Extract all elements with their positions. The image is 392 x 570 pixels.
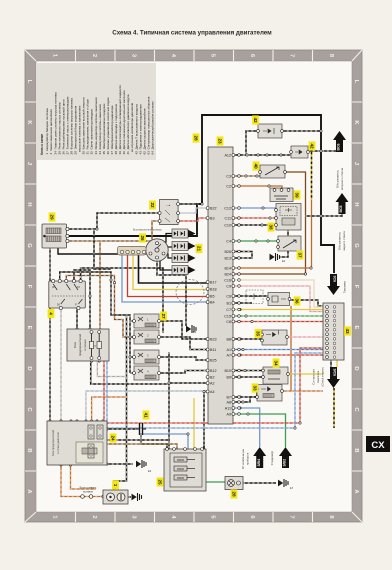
wire module top pin to trunk: [178, 203, 202, 205]
interior fuse box: [67, 329, 109, 361]
svg-text:Ключ к схеме: Ключ к схеме: [40, 134, 44, 155]
svg-text:40: 40: [253, 163, 258, 169]
svg-text:Высоковольтные провода: Высоковольтные провода: [133, 229, 162, 232]
svg-text:C10: C10: [224, 223, 231, 227]
svg-text:B7: B7: [226, 395, 231, 399]
svg-text:35: 35: [255, 331, 260, 337]
sensor 33: [256, 385, 284, 402]
svg-text:B11: B11: [210, 348, 216, 352]
svg-text:B: B: [353, 448, 359, 452]
sensor 35: [261, 330, 289, 345]
wire ignition coil to module: [67, 213, 159, 229]
wire relay42a left leg: [246, 131, 258, 154]
wire switch feed to mid: [81, 268, 163, 333]
spark plug 4: [172, 266, 196, 275]
label badge 4: [48, 309, 55, 318]
svg-text:C11: C11: [225, 216, 232, 220]
svg-text:27: 27: [161, 313, 166, 319]
speed sensor 34: [262, 367, 290, 384]
arrow rear screen heater BC5: [336, 193, 349, 214]
svg-text:7: 7: [288, 54, 294, 57]
wire injector 3 return: [159, 357, 208, 360]
wire bottom black row: [107, 439, 169, 441]
svg-text:C7: C7: [226, 308, 231, 312]
svg-text:25: 25: [157, 479, 162, 485]
svg-text:Е7: Е7: [290, 486, 294, 490]
wire ECU B8 to sensor35: [233, 339, 262, 341]
wire main battery feed trunk: [67, 115, 334, 273]
label badge 28: [193, 133, 200, 142]
label badge 33: [252, 383, 259, 392]
engine bay fuse box 24: [47, 421, 107, 465]
legend key box: [36, 63, 156, 160]
svg-text:заднего стекла: заднего стекла: [342, 231, 346, 251]
svg-text:B: B: [26, 448, 32, 452]
svg-text:B23: B23: [210, 337, 217, 341]
svg-text:CX: CX: [371, 440, 385, 451]
wire sensor38 earth leg: [280, 230, 288, 257]
svg-text:Блок предохранителей: Блок предохранителей: [52, 429, 55, 456]
label badge 34: [273, 358, 280, 367]
svg-text:B18: B18: [210, 287, 217, 291]
svg-text:A12: A12: [224, 153, 231, 157]
svg-text:28: 28: [231, 491, 236, 497]
svg-text:Сигнальная: Сигнальная: [312, 369, 316, 385]
label badge 22: [149, 200, 156, 209]
svg-text:26: 26: [140, 235, 145, 241]
wire fusebox24 orange loop 1: [61, 465, 103, 497]
svg-text:C8: C8: [226, 320, 231, 324]
wire injector tap 3: [130, 356, 134, 358]
wire switch white-grey wire: [60, 308, 62, 421]
wire ECU C6 to idle valve: [233, 295, 268, 297]
oxygen sensor 28: [225, 477, 243, 490]
wire ECU C10 black: [233, 224, 276, 226]
wire check lamp yellow feed: [336, 360, 338, 367]
svg-text:B8: B8: [226, 337, 231, 341]
ignition switch 4: [49, 279, 86, 309]
svg-text:ВС6: ВС6: [337, 143, 341, 150]
label badge 29: [49, 212, 56, 221]
svg-text:B22: B22: [210, 206, 217, 210]
injector 3: [133, 350, 161, 364]
spark plug 3: [172, 254, 196, 263]
diagnostic connector 43: [323, 303, 344, 360]
arrow speedometer 3B2: [279, 447, 292, 468]
wire nest vertical black: [94, 229, 111, 269]
svg-text:22: 22: [150, 202, 155, 208]
ground E1 fusible link: [132, 493, 142, 501]
label badge 28: [231, 489, 238, 498]
throttle switch dashed box: [246, 290, 263, 304]
svg-text:Спидометр: Спидометр: [270, 450, 274, 465]
wire injector tap 2: [130, 336, 134, 338]
svg-text:2: 2: [91, 515, 97, 518]
svg-text:J: J: [26, 162, 32, 165]
arrow instrument cluster 3B4: [253, 447, 266, 468]
wire ECU A12 to relay: [233, 154, 291, 156]
wire ECU C11 red: [233, 217, 276, 219]
svg-text:Блок плавких: Блок плавких: [80, 486, 97, 490]
air temp sensor 37: [277, 236, 301, 251]
wire fusebox salon lower out: [91, 361, 169, 384]
legend entries: [45, 85, 154, 155]
injector 2: [133, 330, 161, 344]
svg-text:C15: C15: [224, 314, 231, 318]
wire ECU B7 to sensor33: [233, 389, 257, 397]
wire injector 4 return: [159, 371, 208, 374]
label badge 36: [294, 296, 301, 305]
ground E2 shield drain: [186, 325, 196, 333]
distributor harness connector: [118, 247, 147, 256]
label badge 25: [157, 477, 164, 486]
wire ECU A7 red dash: [233, 354, 323, 356]
wire switch feed brown: [66, 276, 134, 338]
wire coil area down-left vertical: [49, 248, 51, 421]
svg-text:Обогреватель: Обогреватель: [338, 231, 342, 250]
wire injector 2 return: [159, 337, 208, 350]
svg-text:7: 7: [288, 515, 294, 518]
svg-text:C2: C2: [226, 184, 231, 188]
svg-text:F: F: [353, 285, 359, 289]
svg-text:Е2: Е2: [193, 330, 197, 334]
wire check lamp tail: [333, 388, 335, 428]
throttle sensor 40: [259, 165, 287, 178]
svg-text:«Check engine»: «Check engine»: [321, 366, 325, 387]
svg-text:35000: 35000: [177, 458, 185, 462]
svg-text:35000: 35000: [177, 467, 185, 471]
svg-text:3/В4: 3/В4: [257, 459, 261, 467]
label badge 37: [297, 250, 304, 259]
arrow windscreen heater BC6: [333, 131, 346, 152]
svg-text:G: G: [26, 243, 32, 248]
svg-text:D: D: [353, 366, 359, 370]
svg-text:—●: —●: [166, 204, 171, 207]
wire C9 pink to connector: [233, 286, 323, 312]
wire ECU A2 wire down: [169, 352, 208, 449]
svg-text:в отсеке двигателя: в отсеке двигателя: [57, 432, 60, 454]
svg-text:Р: Р: [75, 303, 77, 307]
svg-text:B25: B25: [210, 358, 217, 362]
wire B1 stub to throttle switch: [233, 302, 252, 304]
svg-text:34: 34: [273, 360, 278, 366]
border frame: [25, 50, 362, 522]
wire ECU C12 blue: [233, 207, 276, 209]
svg-text:L: L: [353, 80, 359, 84]
svg-text:предохранителей: предохранителей: [78, 334, 82, 356]
label badge 42: [309, 141, 316, 150]
svg-text:E: E: [26, 326, 32, 330]
resistor pack 25: [164, 448, 206, 491]
wire resistor box stub: [166, 444, 168, 449]
svg-text:B24: B24: [224, 272, 231, 276]
svg-text:B2: B2: [210, 375, 215, 379]
wire resistor to oxygen green: [206, 481, 225, 483]
injector 4: [133, 366, 161, 380]
svg-text:От комбинации: От комбинации: [241, 449, 245, 469]
svg-text:41: 41: [143, 412, 148, 418]
shielded cable screen: [176, 280, 204, 305]
wire sensor35 pink out: [287, 336, 323, 338]
ground E7 oxygen sensor: [278, 479, 288, 487]
svg-text:B10: B10: [224, 369, 231, 373]
svg-text:43: 43: [345, 328, 350, 334]
wire sensor34 yellow out: [288, 373, 323, 375]
wire fusebox24 right black: [107, 428, 136, 430]
wire relay42b to screen heater arrow: [308, 150, 337, 152]
label badge 24: [110, 433, 117, 442]
injector 1: [133, 314, 161, 328]
wire fusebox orange drop: [92, 397, 127, 421]
wire bottom red dash row: [104, 348, 323, 423]
wire ECU A8 to sensor33: [233, 397, 257, 402]
wire ECU C4 green: [233, 240, 278, 242]
wire module to ECU B22 pale: [178, 208, 208, 213]
wire plug leads: [160, 234, 172, 271]
map sensor 38: [275, 204, 301, 231]
svg-text:B13: B13: [224, 256, 231, 260]
svg-text:B14: B14: [224, 266, 231, 270]
label badge 39: [294, 190, 301, 199]
svg-text:B17: B17: [210, 280, 217, 284]
wire distributor yellow wire: [133, 255, 208, 290]
svg-text:3/С6: 3/С6: [333, 369, 337, 377]
svg-text:ВС5: ВС5: [339, 205, 343, 212]
ignition coil 29: [42, 224, 69, 248]
svg-text:23: 23: [217, 138, 222, 144]
svg-text:J: J: [353, 162, 359, 165]
svg-text:A4: A4: [210, 390, 215, 394]
label badge 38: [268, 222, 275, 231]
relay 42b: [290, 146, 310, 158]
svg-text:Схема 4. Типичная система упра: Схема 4. Типичная система управления дви…: [112, 30, 272, 37]
svg-text:A8: A8: [226, 400, 231, 404]
svg-text:Е2: Е2: [282, 259, 286, 263]
svg-text:в салоне: в салоне: [84, 339, 87, 351]
wire C16 cream to connector: [233, 280, 323, 307]
wire injector 1 return: [159, 321, 208, 339]
wire switch to fusebox a: [74, 270, 90, 329]
wire injector rail: [129, 321, 131, 373]
wire ECU B9 to sensor34: [233, 376, 263, 378]
svg-text:Обогреватель: Обогреватель: [336, 169, 340, 188]
svg-text:F: F: [26, 285, 32, 289]
wire relay42a right leg: [282, 130, 321, 132]
svg-text:приборов: приборов: [246, 452, 250, 465]
svg-text:21: 21: [196, 246, 201, 252]
svg-text:H: H: [26, 202, 32, 206]
wire sensor40 brown trunk to B24: [233, 172, 305, 274]
frame grid numbers: [26, 54, 359, 520]
svg-text:B3: B3: [210, 216, 215, 220]
wire ECU A4 wire down: [204, 392, 208, 450]
wire ECU A11 blue to cluster: [233, 408, 259, 447]
wire ECU B10 to sensor34: [233, 370, 263, 372]
wire idle valve right: [290, 300, 324, 306]
svg-text:3С6: 3С6: [333, 276, 337, 283]
wire fusebox24 orange loop 2: [71, 465, 97, 489]
wire bottom blue dash row: [107, 353, 323, 428]
wire yellow drop to resistor box: [193, 398, 195, 449]
label badge 1: [112, 480, 119, 489]
svg-text:A11: A11: [225, 406, 231, 410]
wire coil to module brown: [67, 221, 159, 241]
svg-text:35000: 35000: [177, 476, 185, 480]
label badge 27: [160, 311, 167, 320]
label badge 26: [139, 233, 146, 242]
svg-text:A2: A2: [210, 381, 215, 385]
svg-text:37: 37: [297, 252, 302, 258]
svg-text:A7: A7: [226, 353, 231, 357]
wire sensor33 orange out: [282, 390, 323, 392]
svg-text:42: 42: [309, 143, 314, 149]
wire capacitor lead down: [141, 437, 169, 444]
svg-text:C12: C12: [224, 206, 231, 210]
svg-text:B4: B4: [210, 300, 215, 304]
svg-text:3/В2: 3/В2: [283, 459, 287, 467]
svg-text:B9: B9: [226, 375, 231, 379]
svg-text:C16: C16: [224, 278, 231, 282]
wire distributor black wire: [139, 255, 208, 283]
svg-text:лампочка: лампочка: [316, 370, 320, 383]
CX page tab: [366, 436, 390, 452]
label badge 40: [253, 161, 260, 170]
svg-text:D: D: [26, 366, 32, 370]
svg-text:Е3: Е3: [148, 469, 152, 473]
svg-text:42: 42: [253, 117, 258, 123]
wire module to ECU B3 red: [178, 218, 208, 221]
svg-text:G: G: [353, 243, 359, 248]
svg-text:36: 36: [294, 298, 299, 304]
wire ECU A9 green to speedometer: [233, 414, 285, 447]
svg-text:B5: B5: [210, 294, 215, 298]
svg-text:C4: C4: [226, 239, 231, 243]
svg-text:C6: C6: [226, 294, 231, 298]
relay 42a: [257, 124, 284, 138]
svg-text:A1: A1: [226, 348, 231, 352]
wire high-tension coil to distributor: [58, 248, 146, 254]
wire ECU C7 yellow: [233, 309, 323, 311]
label badge 21: [196, 244, 203, 253]
svg-text:4: 4: [48, 312, 53, 315]
svg-text:H: H: [353, 202, 359, 206]
svg-text:33: 33: [252, 385, 257, 391]
svg-text:24: 24: [110, 435, 115, 441]
label badge 43: [344, 326, 351, 335]
ignition module 22: [158, 200, 180, 225]
wire distributor red wire: [128, 255, 208, 297]
coolant sensor 39: [270, 188, 293, 202]
svg-text:2: 2: [91, 54, 97, 57]
wire distributor earth drop: [157, 261, 186, 326]
arrow check engine lamp 3C6: [327, 367, 340, 388]
svg-text:Тахометр: Тахометр: [343, 280, 347, 293]
wire yellow-black drop from relay 42b: [311, 152, 313, 200]
svg-text:вставок: вставок: [83, 490, 93, 493]
label badge 35: [255, 329, 262, 338]
ground E3 engine bay fusebox: [136, 460, 146, 468]
svg-text:38: 38: [268, 224, 273, 230]
wire fusebox24 to earth: [107, 463, 133, 465]
wire fusebox salon grey out: [97, 361, 126, 377]
svg-text:64 Диагностический разъём сис: 64 Диагностический разъём системы: [151, 101, 155, 154]
svg-text:A9: A9: [226, 412, 231, 416]
wire nest vertical brown: [99, 241, 101, 329]
label badge 42: [252, 115, 259, 124]
svg-text:B12: B12: [210, 369, 217, 373]
arrow tachometer 3C6: [327, 274, 340, 295]
svg-text:L: L: [26, 80, 32, 84]
svg-text:29: 29: [49, 214, 54, 220]
wire ECU C8 red: [233, 321, 323, 323]
wire ECU C2 orange: [233, 186, 282, 190]
wire bottom blue solid row: [140, 434, 188, 449]
svg-text:Блок: Блок: [73, 341, 77, 348]
wire link box to earth: [128, 496, 131, 498]
wire switch feed right black: [60, 272, 130, 321]
wire injector tap 1: [130, 320, 134, 322]
wire heater rear arrow feed: [305, 212, 342, 216]
capacitor 41: [136, 423, 146, 437]
wire distributor blue wire: [122, 255, 208, 302]
wire orange drop to B14: [233, 200, 311, 268]
svg-text:1: 1: [113, 484, 118, 487]
wire grey-blue long row: [86, 391, 204, 421]
wire resistor box top feeds join: [203, 444, 205, 449]
label badge 41: [143, 410, 150, 419]
wire switch lower pin to fusebox: [76, 308, 78, 329]
wire ECU C3 brown: [233, 175, 260, 177]
svg-text:C3: C3: [226, 174, 231, 178]
distributor 26: [146, 239, 168, 261]
svg-text:28: 28: [193, 135, 198, 141]
svg-text:E: E: [353, 326, 359, 330]
wire junction dots: [246, 154, 248, 156]
wire check lamp black feed: [330, 360, 332, 367]
spark plug 2: [172, 242, 196, 251]
wire mid vertical to bottom rows: [114, 316, 127, 490]
ground E2 below sensor 37: [270, 253, 280, 261]
label badge 23: [217, 136, 224, 145]
wire ECU C15 green: [233, 315, 323, 317]
wire oxygen sensor lead: [243, 482, 276, 484]
svg-text:ветрового стекла: ветрового стекла: [340, 167, 344, 190]
svg-text:C9: C9: [226, 284, 231, 288]
wire B26 B13 jumper: [233, 252, 252, 259]
ECU U23 engine control unit: [206, 147, 240, 424]
fusible link box 1: [81, 490, 128, 504]
wire bottom brown row: [107, 444, 177, 449]
idle valve 36: [267, 293, 291, 306]
wire orange mid vertical: [290, 306, 292, 391]
wire ECU A1 blue: [233, 349, 323, 351]
svg-text:39: 39: [294, 192, 299, 198]
svg-text:B1: B1: [226, 301, 231, 305]
svg-text:B26: B26: [224, 250, 231, 254]
spark plug 1: [172, 229, 196, 238]
wire injector tap 4: [130, 372, 134, 374]
